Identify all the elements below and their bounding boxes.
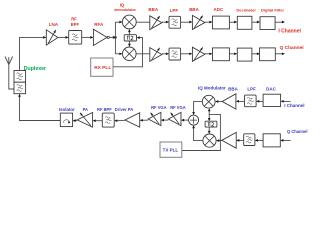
ADC box (row1) [213,16,230,29]
Digital Filter box (row2) [260,48,276,61]
wire RF VGA to Driver PA [142,119,148,121]
wire PA to Isolator [75,120,77,122]
svg-text:Isolator: Isolator [59,107,75,112]
wire LO down into mixer M2 [128,41,130,45]
wire BBA to mixer M4 (row4) [219,140,222,142]
svg-text:Q Channel: Q Channel [280,45,304,51]
svg-text:demodulator: demodulator [114,8,136,12]
filter LPF (row1) [169,16,181,28]
wire Decimator to Digital Filter (row1) [252,21,257,23]
duplexer filter (top half) [14,71,26,83]
wire Q Channel into DAC (row4) [283,139,291,141]
wire RF BPF to PA [95,120,102,122]
wire to mixer M2 [115,53,120,55]
svg-text:Driver PA: Driver PA [115,107,133,112]
wire summer to RF VGA (right) [184,119,189,121]
amplifier BBA (row4) [222,132,236,148]
wire duplexer to LNA [20,37,44,70]
phase shifter pi/2 (TX) [205,121,217,127]
svg-text:IQ Modulator: IQ Modulator [198,86,226,91]
I Channel output arrow (RX) [275,21,282,23]
svg-text:BPF: BPF [71,22,80,27]
svg-text:Duplexer: Duplexer [24,66,46,72]
mixer M1 (RX I) [122,15,136,29]
filter RF BPF (RX) [69,31,82,45]
Decimator box (row2) [237,48,252,61]
svg-text:IQ: IQ [120,2,125,7]
DAC box (row4) [263,134,280,147]
wire LPF to BBA (row2) [181,53,190,55]
mixer M3 (TX I) [202,95,215,108]
svg-text:RF: RF [71,17,77,22]
filter RF BPF (TX) [102,113,114,127]
DAC box (row3) [263,94,281,106]
svg-text:I Channel: I Channel [284,103,304,108]
amplifier RF VGA (right) [168,112,181,125]
wire RF BPF to RFA [82,36,91,38]
wire I Channel into DAC (row3) [283,100,290,102]
mixer M2 (RX Q) [123,47,137,61]
wire to mixer M1 [115,21,120,23]
svg-text:PA: PA [83,107,88,112]
wire LPF to BBA (row3) [239,100,245,102]
filter LPF (row2) [169,48,181,60]
svg-text:BBA: BBA [148,7,158,12]
phase shifter pi/2 (RX) [124,35,136,41]
wire RX PLL to pi/2 [113,38,143,67]
wire DAC to LPF (row3) [259,100,263,102]
node after RFA [107,36,109,38]
wire DAC to LPF (row4) [258,139,264,141]
filter LPF (row4) [244,134,255,146]
mixer M4 (TX Q) [203,134,216,147]
wire Decimator to Digital Filter (row2) [252,53,257,55]
summer [189,115,199,125]
svg-text:RX PLL: RX PLL [94,65,111,71]
amplifier Driver PA [125,113,140,128]
svg-text:ADC: ADC [214,7,224,12]
wire mixer M4 out to summer [194,128,203,141]
wire LO up into mixer M1 [128,31,130,34]
wire LO down into pi/2 (TX) [208,114,210,118]
svg-text:DAC: DAC [266,87,276,92]
Q Channel output arrow (RX) [275,53,282,55]
svg-text:Digital Filter: Digital Filter [261,8,285,13]
wire ADC to Decimator (row1) [229,21,234,23]
Decimator box (row1) [237,16,252,29]
TX PLL [160,142,182,157]
svg-text:Decimator: Decimator [236,8,256,13]
svg-text:LPF: LPF [170,8,179,13]
wire RF VGA to RF VGA [164,119,169,121]
wire BBA to LPF (row2) [162,53,166,55]
svg-text:BBA: BBA [228,86,238,91]
amplifier LNA [46,30,58,45]
isolator box [60,113,72,127]
wire LNA to RF BPF [58,36,66,38]
amplifier PA [77,113,92,128]
wire mixer M2 to BBA (row2) [136,53,150,55]
svg-text:RF VGA: RF VGA [170,105,186,110]
svg-text:LNA: LNA [49,22,59,27]
filter LPF (row3) [245,95,257,107]
wire BBA to LPF (row1) [162,21,166,23]
wire isolator to duplexer [20,96,61,120]
amplifier BBA (row3) [222,94,236,109]
svg-text:LPF: LPF [247,87,256,92]
svg-text:Q Channel: Q Channel [287,129,307,134]
amplifier BBA (row2 a) [150,48,162,62]
wire BBA to mixer M3 [218,100,222,102]
svg-text:RF BPF: RF BPF [97,107,112,112]
svg-text:TX PLL: TX PLL [163,148,179,153]
amplifier BBA (row2 b) [192,47,205,61]
wire BBA to ADC (row2) [205,53,210,55]
svg-text:I Channel: I Channel [278,28,301,34]
wire pi/2 to mixer M4 [208,127,210,131]
wire BBA to ADC (row1) [205,21,210,23]
wire LO from TX PLL (junction and feed) [182,111,221,151]
duplexer filter (bottom half) [14,82,26,94]
wire ADC to Decimator (row2) [229,53,234,55]
Digital Filter box (row1) [260,17,275,30]
amplifier BBA (row1 b) [192,15,205,29]
RX PLL [91,58,113,76]
svg-text:RFA: RFA [94,22,104,27]
amplifier RFA [93,29,107,45]
wire Driver PA to RF BPF (TX) [117,119,125,121]
wire LPF to BBA (row4) [239,139,244,141]
wire mixer M3 out to summer [194,102,203,113]
amplifier RF VGA (left) [148,112,161,125]
ADC box (row2) [213,48,230,61]
wire RF split vertical [114,22,116,54]
svg-text:BBA: BBA [189,7,199,12]
svg-text:RF VGA: RF VGA [151,105,167,110]
antenna [5,57,14,90]
wire LPF to BBA (row1) [181,21,190,23]
wire mixer M1 to BBA [136,21,150,23]
amplifier BBA (row1 a) [150,16,162,30]
